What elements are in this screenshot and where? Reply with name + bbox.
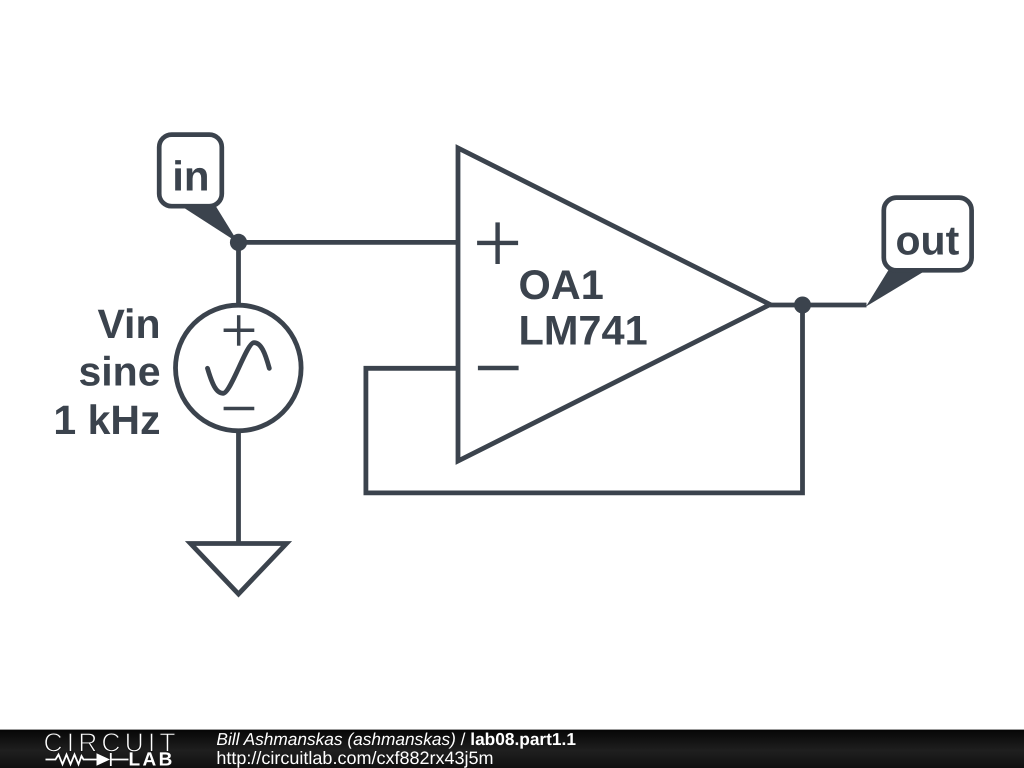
wire source bottom to ground <box>236 430 241 544</box>
svg-text:in: in <box>172 153 209 200</box>
voltage source V1 circle <box>176 305 302 431</box>
svg-text:sine: sine <box>78 349 160 395</box>
wire node to source top <box>236 242 241 307</box>
flag in box <box>159 135 222 207</box>
svg-text:LM741: LM741 <box>519 307 648 354</box>
svg-text:Vin: Vin <box>97 301 160 347</box>
svg-text:http://circuitlab.com/cxf882rx: http://circuitlab.com/cxf882rx43j5m <box>216 748 493 768</box>
svg-text:LAB: LAB <box>129 750 175 768</box>
voltage source minus sign <box>224 407 255 411</box>
op-amp plus input symbol <box>477 222 518 264</box>
op-amp minus input symbol <box>478 366 519 370</box>
flag out box <box>884 198 972 271</box>
logo diode triangle <box>97 753 111 765</box>
voltage source sine wave <box>208 343 270 394</box>
svg-text:1 kHz: 1 kHz <box>53 397 160 443</box>
node out junction dot <box>794 297 811 314</box>
flag out tail <box>866 270 927 307</box>
op-amp OA1 triangle <box>458 148 770 461</box>
wire op-amp output to out flag <box>770 303 867 308</box>
svg-text:OA1: OA1 <box>519 261 604 308</box>
ground <box>191 544 287 595</box>
logo resistor-diode squiggle <box>46 753 129 766</box>
voltage source plus sign <box>224 315 255 346</box>
footer bar <box>0 730 1024 768</box>
wire feedback loop <box>366 305 803 493</box>
svg-text:out: out <box>896 218 960 264</box>
wire node to op-amp plus input <box>239 240 459 245</box>
node in junction dot <box>230 234 247 251</box>
flag in tail <box>185 207 239 244</box>
label Vin sine 1 kHz <box>53 301 160 443</box>
svg-text:Bill Ashmanskas (ashmanskas) /: Bill Ashmanskas (ashmanskas) / lab08.par… <box>216 729 576 749</box>
